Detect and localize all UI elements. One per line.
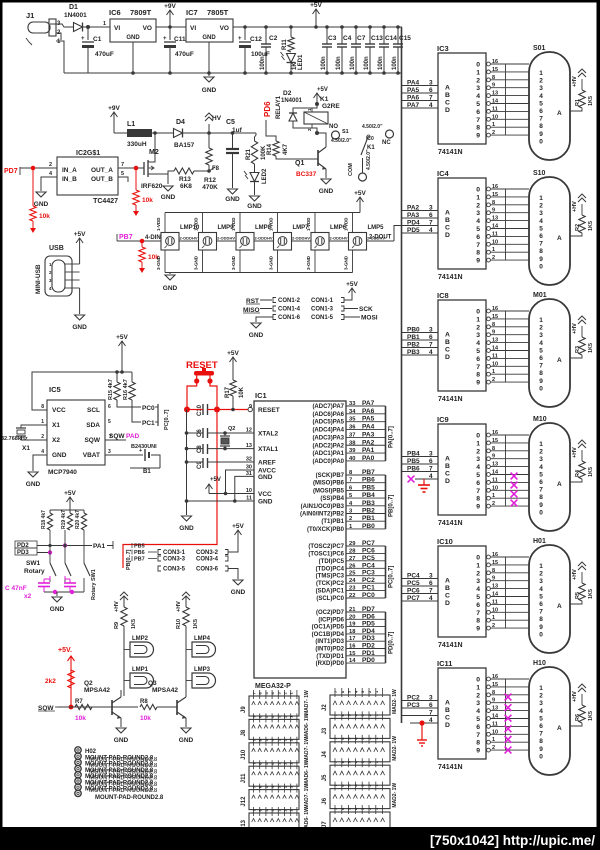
svg-text:J6: J6 xyxy=(322,797,328,804)
IC8 input pin 6 net PB1 xyxy=(402,339,439,341)
bus PD[0..7] xyxy=(385,612,387,663)
svg-text:3: 3 xyxy=(539,210,543,217)
svg-text:(SS)PB4: (SS)PB4 xyxy=(320,496,344,502)
svg-text:R4: R4 xyxy=(575,469,581,477)
svg-text:2-ODDHV: 2-ODDHV xyxy=(217,236,235,241)
anode resistor R2 1K5 xyxy=(570,233,582,236)
IC10 output 1 pin 15 xyxy=(487,563,491,567)
svg-text:PB4: PB4 xyxy=(362,492,375,499)
svg-text:C7: C7 xyxy=(357,35,366,42)
svg-text:GND: GND xyxy=(179,737,194,744)
header CON3 rows xyxy=(158,550,161,555)
wire relay to Q1 collector xyxy=(312,128,317,133)
svg-text:Rotary: Rotary xyxy=(24,568,45,575)
svg-text:1: 1 xyxy=(492,247,495,253)
svg-text:4: 4 xyxy=(476,218,480,225)
svg-text:1K: 1K xyxy=(292,62,298,70)
svg-text:RESET: RESET xyxy=(186,360,218,371)
svg-text:2: 2 xyxy=(539,449,543,456)
ground below C5 xyxy=(228,189,238,194)
svg-text:4-DIN: 4-DIN xyxy=(145,235,161,241)
IC8 input pin 3 net PB0 xyxy=(402,332,439,334)
svg-text:7: 7 xyxy=(121,162,124,168)
svg-text:4: 4 xyxy=(539,708,543,715)
red pulldown 10k at PB7 xyxy=(141,241,143,247)
svg-text:32.768kHz: 32.768kHz xyxy=(1,436,28,442)
IC10 output 6 pin 11 xyxy=(487,603,491,607)
svg-text:32: 32 xyxy=(246,457,252,463)
+5V rail from IC7 output xyxy=(233,26,402,28)
svg-text:4: 4 xyxy=(539,218,543,225)
svg-text:USB: USB xyxy=(49,245,64,252)
bus PA[0..7] xyxy=(385,406,387,461)
svg-text:+5V: +5V xyxy=(210,477,221,483)
svg-text:5: 5 xyxy=(539,471,543,478)
svg-text:15: 15 xyxy=(492,67,498,73)
resistor R18 4k7 xyxy=(49,510,51,513)
svg-text:J12: J12 xyxy=(241,796,247,807)
svg-text:1-VDD: 1-VDD xyxy=(231,217,236,231)
svg-text:(AIN0/INT2)PB2: (AIN0/INT2)PB2 xyxy=(300,512,345,518)
svg-text:(T1)PB1: (T1)PB1 xyxy=(321,519,344,525)
svg-text:6: 6 xyxy=(539,479,543,486)
svg-text:17: 17 xyxy=(349,636,355,642)
svg-text:2: 2 xyxy=(41,434,44,440)
svg-text:PC5: PC5 xyxy=(407,580,420,587)
svg-text:3: 3 xyxy=(476,456,480,463)
svg-text:3: 3 xyxy=(476,700,480,707)
svg-text:PC6: PC6 xyxy=(362,547,375,554)
wire GND row xyxy=(187,500,255,502)
wire IC5 GND to ground xyxy=(33,455,47,471)
svg-text:10k: 10k xyxy=(140,715,151,722)
svg-text:74141N: 74141N xyxy=(438,642,463,649)
svg-text:2: 2 xyxy=(476,202,480,209)
svg-text:6K8: 6K8 xyxy=(180,183,192,190)
svg-text:11: 11 xyxy=(492,231,498,237)
svg-text:+5V: +5V xyxy=(74,231,86,238)
svg-text:H01: H01 xyxy=(533,538,546,545)
svg-text:R18 4k7: R18 4k7 xyxy=(41,510,47,529)
magenta X marks on IC9 outputs xyxy=(511,473,518,480)
wire AVCC loop xyxy=(226,470,255,494)
svg-text:MOSI: MOSI xyxy=(361,315,378,322)
IC11 output 9 pin 2 xyxy=(487,748,491,752)
bus PB[0..7] xyxy=(385,475,387,529)
svg-text:M10: M10 xyxy=(533,416,547,423)
svg-text:3: 3 xyxy=(108,449,111,455)
svg-text:PD0: PD0 xyxy=(362,657,375,664)
svg-text:5: 5 xyxy=(539,100,543,107)
svg-text:PD6: PD6 xyxy=(362,613,375,620)
svg-text:+HV: +HV xyxy=(572,447,578,458)
IC8 output 6 pin 11 xyxy=(487,357,491,361)
svg-text:PD7: PD7 xyxy=(362,606,375,613)
svg-text:A: A xyxy=(445,85,450,92)
svg-text:PD3: PD3 xyxy=(362,635,375,642)
svg-text:15: 15 xyxy=(492,314,498,320)
svg-text:+5V: +5V xyxy=(310,2,322,9)
svg-text:LMP1: LMP1 xyxy=(132,667,149,673)
svg-text:VBAT: VBAT xyxy=(83,452,100,459)
svg-text:100n: 100n xyxy=(378,56,384,70)
svg-text:PD5: PD5 xyxy=(407,227,420,234)
svg-text:PC6: PC6 xyxy=(407,588,420,595)
svg-text:PB7: PB7 xyxy=(134,557,145,563)
svg-text:CON1-4: CON1-4 xyxy=(278,307,301,313)
svg-text:2: 2 xyxy=(539,693,543,700)
svg-text:14: 14 xyxy=(492,592,499,598)
svg-text:PB[0..7]: PB[0..7] xyxy=(126,549,132,570)
ground below M2 source xyxy=(163,186,173,191)
svg-text:(TXD)PD1: (TXD)PD1 xyxy=(316,654,344,660)
svg-text:IC4: IC4 xyxy=(437,169,450,178)
svg-text:OUT_B: OUT_B xyxy=(91,176,113,183)
svg-text:3: 3 xyxy=(476,578,480,585)
svg-text:PA[0..7]: PA[0..7] xyxy=(389,426,395,448)
svg-text:R13: R13 xyxy=(179,176,191,183)
svg-text:14: 14 xyxy=(492,714,499,720)
bottom ground rail xyxy=(64,72,402,74)
svg-text:4: 4 xyxy=(539,586,543,593)
svg-text:R1: R1 xyxy=(575,99,581,106)
svg-text:7: 7 xyxy=(429,220,433,227)
rotary ground rail xyxy=(44,591,84,593)
svg-text:9: 9 xyxy=(539,378,543,385)
svg-text:PA6: PA6 xyxy=(362,408,375,415)
svg-text:A: A xyxy=(445,210,450,217)
svg-text:4: 4 xyxy=(539,340,543,347)
svg-text:2: 2 xyxy=(492,130,495,136)
IC3 output 9 pin 2 xyxy=(487,133,491,137)
svg-text:PB1: PB1 xyxy=(407,334,420,341)
IC3 output 4 pin 13 xyxy=(487,94,491,98)
svg-text:Rotary SW1: Rotary SW1 xyxy=(91,569,97,600)
wire lamp link xyxy=(217,240,237,242)
svg-text:2: 2 xyxy=(539,571,543,578)
svg-text:GND: GND xyxy=(247,203,262,210)
vertical feeder bus right of IC1 xyxy=(401,27,403,723)
svg-text:S10: S10 xyxy=(533,170,546,177)
svg-text:VO: VO xyxy=(143,25,152,32)
svg-text:IC9: IC9 xyxy=(437,415,449,424)
svg-text:0: 0 xyxy=(476,555,480,562)
svg-text:(MISO)PB6: (MISO)PB6 xyxy=(313,481,345,487)
IC11 input pin 7 xyxy=(402,715,439,717)
relay K1 coil xyxy=(304,112,328,124)
svg-text:XTAL1: XTAL1 xyxy=(258,446,278,453)
svg-text:14: 14 xyxy=(492,99,499,105)
cable mark at J1 xyxy=(26,38,32,45)
svg-text:A: A xyxy=(557,481,562,488)
svg-text:11: 11 xyxy=(492,721,498,727)
svg-text:9: 9 xyxy=(492,454,495,460)
svg-text:3-GND: 3-GND xyxy=(156,255,161,270)
svg-text:3-GND: 3-GND xyxy=(231,255,236,270)
svg-text:PB4: PB4 xyxy=(407,451,420,458)
svg-text:(INT1)PD3: (INT1)PD3 xyxy=(315,639,344,645)
anode resistor R4 1K5 xyxy=(570,479,582,482)
wire IC6 GND to rail xyxy=(132,42,134,73)
svg-text:X1: X1 xyxy=(22,445,30,452)
svg-text:NO: NO xyxy=(329,124,338,130)
svg-text:2: 2 xyxy=(492,501,495,507)
svg-text:IRF620: IRF620 xyxy=(141,183,163,190)
IC8 input pin 4 net PB3 xyxy=(402,354,439,356)
svg-text:LMP5: LMP5 xyxy=(368,225,385,231)
svg-text:J7: J7 xyxy=(322,821,328,828)
IC11 output fan line xyxy=(505,679,507,750)
svg-text:H10: H10 xyxy=(533,660,546,667)
IC11 output 1 pin 15 xyxy=(487,685,491,689)
svg-text:2-ODDHV: 2-ODDHV xyxy=(180,236,198,241)
svg-text:PB1: PB1 xyxy=(362,515,375,522)
svg-text:15: 15 xyxy=(492,438,498,444)
wire CON3-6 to ground xyxy=(228,569,238,580)
svg-text:3-GND: 3-GND xyxy=(306,255,311,270)
svg-text:15: 15 xyxy=(492,682,498,688)
svg-text:3: 3 xyxy=(429,573,433,580)
svg-text:470uF: 470uF xyxy=(95,51,114,58)
svg-text:7: 7 xyxy=(539,609,543,616)
svg-text:PD3: PD3 xyxy=(17,550,29,556)
svg-text:PC5: PC5 xyxy=(362,555,375,562)
svg-text:38: 38 xyxy=(349,440,356,446)
wire D4 to HV node xyxy=(183,132,257,134)
svg-text:9: 9 xyxy=(476,380,480,387)
svg-text:(ADC0)PA0: (ADC0)PA0 xyxy=(312,459,344,465)
svg-text:MCP7940: MCP7940 xyxy=(48,469,77,476)
svg-text:11: 11 xyxy=(492,353,498,359)
svg-text:J2: J2 xyxy=(322,704,328,711)
svg-text:X2: X2 xyxy=(52,437,60,444)
IC8 output 4 pin 13 xyxy=(487,341,491,345)
wire R16 to PC1 xyxy=(132,400,141,422)
wire R13 to source xyxy=(168,171,174,174)
IC8 input pin 7 net PB2 xyxy=(402,347,439,349)
svg-text:(ADC5)PA5: (ADC5)PA5 xyxy=(312,420,344,426)
svg-text:10: 10 xyxy=(492,114,498,120)
svg-text:D2: D2 xyxy=(283,90,292,97)
svg-text:PC4: PC4 xyxy=(362,562,375,569)
svg-text:(TMS)PC3: (TMS)PC3 xyxy=(316,574,345,580)
svg-text:15: 15 xyxy=(349,651,356,657)
jack switch lever xyxy=(361,137,368,155)
svg-text:28: 28 xyxy=(349,548,356,554)
svg-text:IC6: IC6 xyxy=(109,8,121,17)
wire J1 pin2 stub xyxy=(56,33,61,40)
svg-text:A: A xyxy=(445,578,450,585)
svg-text:(OC1A)PD5: (OC1A)PD5 xyxy=(312,625,345,631)
svg-text:CON3-3: CON3-3 xyxy=(163,557,186,563)
svg-text:7: 7 xyxy=(429,95,433,102)
svg-text:MOUNT-PAD-ROUND2.8: MOUNT-PAD-ROUND2.8 xyxy=(89,788,158,794)
svg-text:16: 16 xyxy=(492,184,498,190)
wire lamp link xyxy=(179,240,199,242)
svg-text:2: 2 xyxy=(349,516,352,522)
IC3 output 6 pin 11 xyxy=(487,110,491,114)
svg-text:6: 6 xyxy=(539,108,543,115)
svg-text:GND: GND xyxy=(161,194,176,201)
svg-text:SQW: SQW xyxy=(84,437,100,444)
svg-text:COM: COM xyxy=(348,163,354,176)
svg-text:5: 5 xyxy=(476,226,480,233)
+HV arrow above R9 xyxy=(120,592,128,596)
svg-text:1-VDD: 1-VDD xyxy=(344,217,349,231)
svg-text:1: 1 xyxy=(539,685,543,692)
IC9 input pin 3 net PB4 xyxy=(402,456,439,458)
header pins CON1-4 CON1-3 xyxy=(273,306,276,311)
IC4 output fan line xyxy=(505,189,507,260)
svg-text:9: 9 xyxy=(492,576,495,582)
svg-text:PA6: PA6 xyxy=(407,95,420,102)
IC3 output 7 pin 10 xyxy=(487,117,491,121)
svg-text:1: 1 xyxy=(492,615,495,621)
svg-text:CON3-5: CON3-5 xyxy=(163,567,186,573)
wire IC6 out xyxy=(156,26,186,28)
svg-text:37: 37 xyxy=(349,432,355,438)
svg-text:PA7: PA7 xyxy=(362,400,375,407)
svg-text:SCL: SCL xyxy=(87,407,100,414)
long red wire reset-column down to CON3 area xyxy=(123,410,217,569)
svg-text:470uF: 470uF xyxy=(175,51,194,58)
ground below lamp chain xyxy=(169,273,171,275)
svg-text:0: 0 xyxy=(476,677,480,684)
magenta X marks on IC11 outputs xyxy=(505,694,512,701)
svg-text:7: 7 xyxy=(429,710,433,717)
wire +9V to L1 xyxy=(114,132,127,134)
svg-text:GND: GND xyxy=(72,324,87,331)
net label PA1 xyxy=(84,545,92,547)
svg-text:GND: GND xyxy=(202,35,216,41)
wire lamp link xyxy=(254,240,274,242)
svg-text:C13: C13 xyxy=(371,35,383,42)
svg-text:1: 1 xyxy=(492,493,495,499)
svg-text:1: 1 xyxy=(539,317,543,324)
svg-text:27: 27 xyxy=(349,556,355,562)
svg-text:R11: R11 xyxy=(282,39,288,50)
svg-text:+5V: +5V xyxy=(317,87,328,93)
svg-text:R6: R6 xyxy=(575,714,581,721)
wire PD2 row xyxy=(37,545,84,547)
svg-text:LMP2: LMP2 xyxy=(132,636,149,642)
svg-text:PB5: PB5 xyxy=(407,458,420,465)
svg-text:B: B xyxy=(445,585,450,592)
svg-text:2-ODDHV: 2-ODDHV xyxy=(330,236,348,241)
IC4 output 1 pin 15 xyxy=(487,195,491,199)
svg-text:(ADC6)PA6: (ADC6)PA6 xyxy=(312,412,344,418)
svg-text:9: 9 xyxy=(539,746,543,753)
svg-text:7: 7 xyxy=(349,478,352,484)
svg-text:10: 10 xyxy=(492,607,498,613)
neon lamp LMP7 xyxy=(274,233,292,251)
svg-text:29: 29 xyxy=(349,541,356,547)
wire CON3 to +5V xyxy=(228,545,238,552)
svg-text:MOUNT-PAD-ROUND2.8: MOUNT-PAD-ROUND2.8 xyxy=(95,795,164,801)
svg-text:0: 0 xyxy=(539,509,543,516)
svg-text:100n: 100n xyxy=(350,56,356,70)
svg-text:B: B xyxy=(445,463,450,470)
svg-text:6: 6 xyxy=(476,109,480,116)
svg-text:MPSA42: MPSA42 xyxy=(152,687,178,694)
svg-text:33: 33 xyxy=(349,401,356,407)
svg-text:R10: R10 xyxy=(176,619,182,629)
neon lamp LMP10 xyxy=(161,233,179,251)
svg-text:J8: J8 xyxy=(241,729,247,736)
svg-text:7: 7 xyxy=(539,487,543,494)
svg-text:14: 14 xyxy=(349,658,356,664)
svg-text:1: 1 xyxy=(41,419,44,425)
svg-text:IN_B: IN_B xyxy=(62,176,77,183)
IC11 output 8 pin 1 xyxy=(487,740,491,744)
svg-text:PD2: PD2 xyxy=(362,643,375,650)
svg-text:VCC: VCC xyxy=(52,407,66,414)
svg-text:B: B xyxy=(445,217,450,224)
+HV arrow at boost output xyxy=(208,124,210,133)
svg-text:(T0/XCK)PB0: (T0/XCK)PB0 xyxy=(307,527,345,533)
IC9 output fan line xyxy=(505,435,507,506)
anode resistor R3 1K5 xyxy=(570,355,582,358)
IC11 input pin 6 net PC3 xyxy=(402,707,439,709)
svg-text:74141N: 74141N xyxy=(438,764,463,771)
supply arrow +5V top xyxy=(315,9,317,27)
IC8 output 9 pin 2 xyxy=(487,380,491,384)
svg-text:PD4: PD4 xyxy=(362,628,375,635)
svg-text:36: 36 xyxy=(349,425,356,431)
svg-text:PC2: PC2 xyxy=(407,695,420,702)
svg-text:(ADC1)PA1: (ADC1)PA1 xyxy=(312,451,344,457)
svg-text:4: 4 xyxy=(429,473,433,480)
svg-text:(RXD)PD0: (RXD)PD0 xyxy=(316,661,345,667)
svg-text:10k: 10k xyxy=(75,715,86,722)
svg-text:0: 0 xyxy=(539,631,543,638)
IC11 output 3 pin 9 xyxy=(487,701,491,705)
svg-text:8: 8 xyxy=(476,740,480,747)
svg-text:CON3-6: CON3-6 xyxy=(196,567,219,573)
ground symbol below IC7 xyxy=(207,71,211,75)
svg-text:6: 6 xyxy=(429,580,433,587)
svg-text:2: 2 xyxy=(492,623,495,629)
svg-text:6: 6 xyxy=(476,234,480,241)
supply arrow +5V above R15 R16 xyxy=(121,355,123,372)
svg-text:0: 0 xyxy=(539,385,543,392)
svg-text:11: 11 xyxy=(492,477,498,483)
svg-text:16: 16 xyxy=(492,59,498,65)
svg-text:7: 7 xyxy=(429,342,433,349)
svg-text:3: 3 xyxy=(539,578,543,585)
svg-text:0: 0 xyxy=(476,62,480,69)
svg-text:MAD2- 1W: MAD2- 1W xyxy=(392,736,398,761)
anode resistor R1 1K5 xyxy=(570,108,582,111)
svg-text:MAD7- 1W: MAD7- 1W xyxy=(304,690,310,715)
svg-text:J3: J3 xyxy=(322,727,328,734)
red node dot on DIN line xyxy=(140,239,145,244)
svg-text:7: 7 xyxy=(476,364,480,371)
svg-text:Q2: Q2 xyxy=(84,680,93,687)
svg-text:PB6: PB6 xyxy=(134,550,145,556)
svg-text:LMP4: LMP4 xyxy=(194,636,211,642)
crystal Q2 at XTAL pins xyxy=(223,431,227,435)
svg-text:4.50/2.0”: 4.50/2.0” xyxy=(366,149,372,170)
svg-text:8: 8 xyxy=(492,75,495,81)
svg-text:4: 4 xyxy=(476,93,480,100)
svg-text:R16 4k7: R16 4k7 xyxy=(123,379,129,400)
svg-text:D4: D4 xyxy=(176,119,185,126)
svg-text:9: 9 xyxy=(492,208,495,214)
IC11 input pin 4 xyxy=(410,722,438,724)
svg-text:CON1-5: CON1-5 xyxy=(311,315,334,321)
svg-text:PC[0..7]: PC[0..7] xyxy=(389,566,395,588)
